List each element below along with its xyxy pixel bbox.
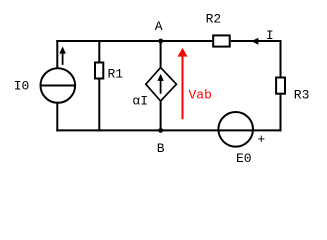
svg-text:B: B <box>157 141 165 156</box>
svg-text:A: A <box>155 19 163 34</box>
svg-text:R3: R3 <box>294 88 310 103</box>
svg-text:αI: αI <box>132 94 148 109</box>
svg-text:I0: I0 <box>14 78 30 93</box>
svg-text:I: I <box>266 28 274 43</box>
svg-text:Vab: Vab <box>189 87 212 102</box>
svg-text:E0: E0 <box>236 151 252 166</box>
svg-text:R1: R1 <box>108 67 124 82</box>
svg-text:+: + <box>257 132 265 147</box>
svg-text:R2: R2 <box>206 12 222 27</box>
